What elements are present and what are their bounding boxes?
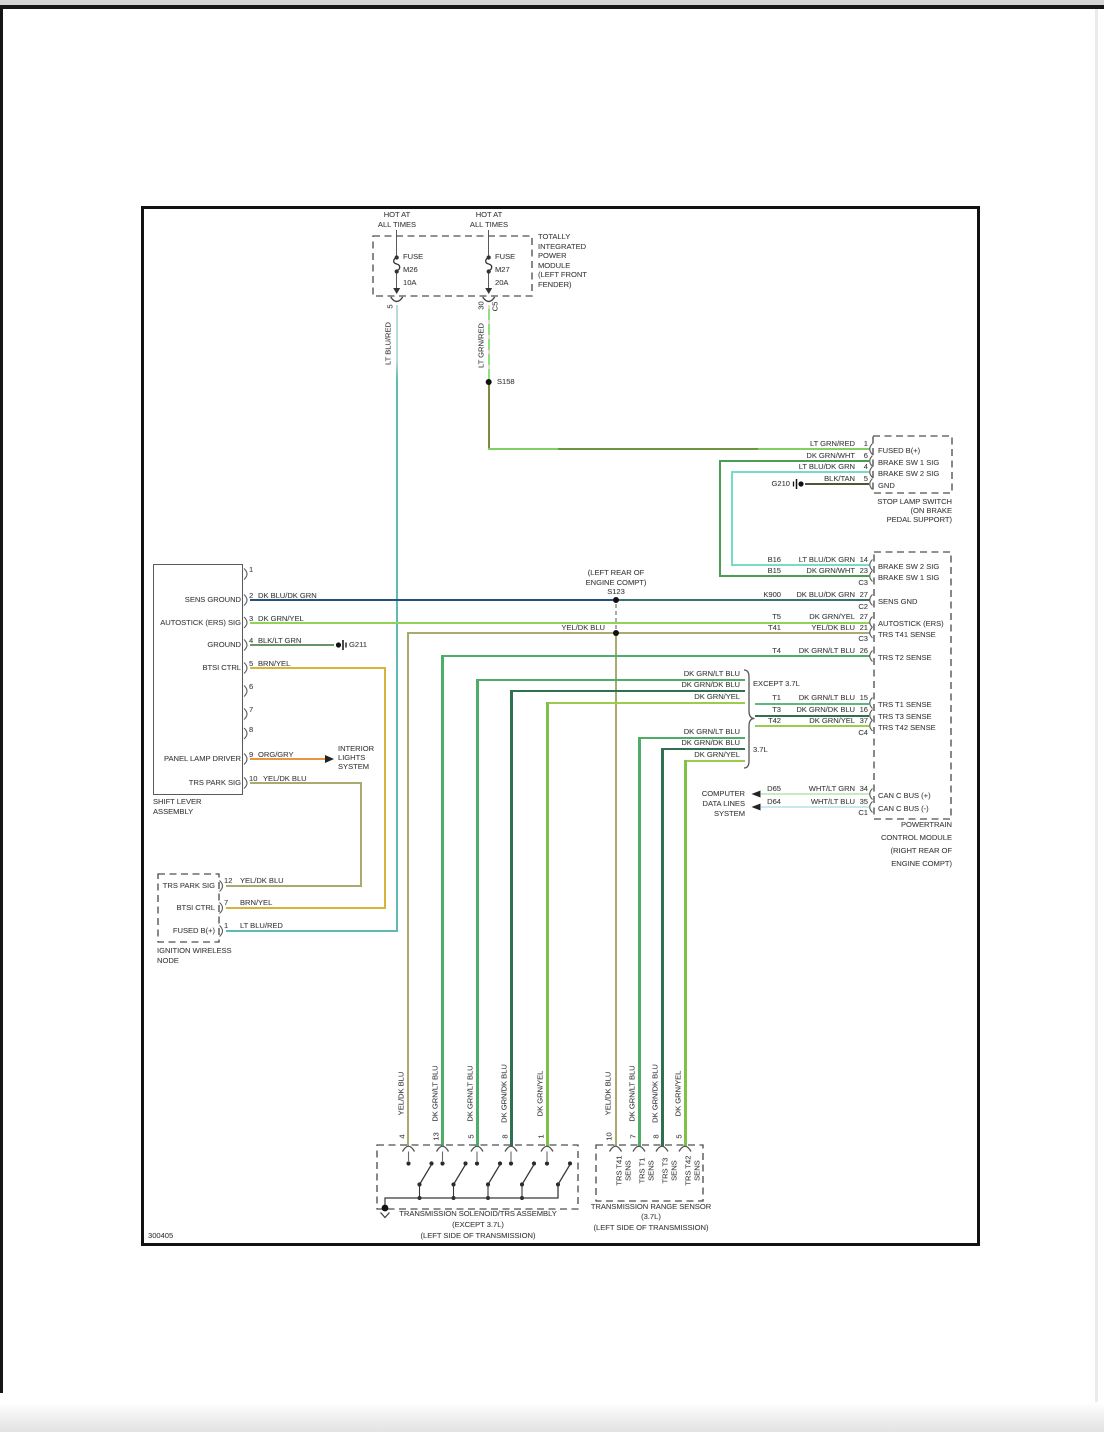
wire DK GRN/YEL vertical x547 [546, 702, 549, 1147]
pin 8 range sensor [651, 1127, 660, 1147]
group label DK GRN/LT BLU b [640, 727, 740, 736]
wire YEL/DK BLU vertical to solenoid [407, 632, 409, 1147]
wire WHT/LT BLU D64 [761, 806, 869, 808]
wire fuse M27 bottom lead [488, 272, 489, 288]
brace except/3.7L groups [744, 670, 755, 768]
pin 5 stop lamp switch [854, 474, 868, 483]
connector arc solenoid wire 4 [505, 1146, 517, 1151]
connector arc solenoid wire 2 [437, 1146, 449, 1151]
wire DK GRN/YEL group row [547, 702, 745, 704]
pin 14 B16 [842, 555, 868, 564]
PCM label AUTOSTICK (ERS) [878, 619, 944, 628]
solenoid ground bus [382, 1185, 558, 1211]
wire LT GRN/RED horizontal run [488, 448, 870, 450]
shift lever label SENS GROUND [141, 595, 241, 604]
PCM label CAN C BUS (-) [878, 804, 929, 813]
connector arc PCM pin 26 T4 [870, 651, 873, 662]
label EXCEPT 3.7L [753, 679, 800, 688]
PCM label CAN C BUS (+) [878, 791, 931, 800]
range sensor label TRS T1 SENS [638, 1150, 655, 1192]
ground G210 label [740, 479, 790, 488]
wire fuse M27 top lead [488, 230, 489, 257]
connector arc node pin 1 [220, 926, 223, 937]
wire DK GRN/LT BLU 3.7L row [639, 737, 745, 739]
connector arc PCM pin 27 K900 [870, 595, 873, 606]
connector arc range sensor wire 2 [633, 1146, 645, 1151]
wire BRN/YEL pin 5 row [250, 667, 386, 669]
shift lever pin 7 [249, 705, 253, 714]
wire fuse M26 bottom lead [396, 272, 397, 288]
circuit id T41 [731, 623, 781, 632]
wire label YEL/DK BLU node pin 12 [240, 876, 284, 885]
pin 16 T3 [842, 705, 868, 714]
wire LT BLU/RED horizontal to node pin 1 [226, 930, 397, 932]
shift lever pin 8 [249, 725, 253, 734]
splice S158 [486, 379, 492, 385]
wire DK GRN/DK BLU vertical x662 [661, 748, 664, 1147]
circuit id T5 [731, 612, 781, 621]
solenoid switch 2 [440, 1152, 467, 1201]
connector arc stop lamp pin 1 [870, 444, 873, 455]
wire label LT BLU/DK GRN B16 [755, 555, 855, 564]
group label DK GRN/YEL b [640, 750, 740, 759]
connector arc shift pin 6 [244, 686, 247, 697]
PCM label TRS T42 SENSE [878, 723, 936, 732]
connector arc PCM pin 21 T41 [870, 627, 873, 638]
pin 15 T1 [842, 693, 868, 702]
range sensor label TRS T41 SENS [615, 1150, 632, 1192]
pin 30 of TIPM [477, 296, 486, 316]
connector arc shift pin 1 [244, 569, 247, 580]
wire YEL/DK BLU vertical to node [360, 782, 362, 887]
node label FUSED B(+) [115, 926, 215, 935]
label YEL/DK BLU range wire 1 [604, 1044, 613, 1144]
shift lever label TRS PARK SIG [141, 778, 241, 787]
label LT BLU/RED [384, 294, 393, 394]
wire label DK GRN/LT BLU T4 [755, 646, 855, 655]
wire T4 DK GRN/LT BLU row [442, 655, 870, 657]
node pin 12 [224, 876, 232, 885]
pin 7 range sensor [628, 1127, 637, 1147]
pin 27 K900 [842, 590, 868, 599]
group label DK GRN/DK BLU a [640, 680, 740, 689]
fuse M27 symbol [486, 255, 492, 273]
shift lever pin 1 [249, 565, 253, 574]
connector C3 upper PCM [842, 578, 868, 587]
PCM label TRS T2 SENSE [878, 653, 932, 662]
wire label ORG/GRY pin 9 [258, 750, 294, 759]
wire label WHT/LT BLU D64 [755, 797, 855, 806]
connector arc shift pin 9 [244, 754, 247, 765]
label DK GRN/DK BLU solenoid wire 4 [499, 1044, 508, 1144]
label DK GRN/DK BLU range wire 3 [650, 1044, 659, 1144]
wire DK GRN/LT BLU vertical x639 [638, 737, 641, 1148]
pin 34 D65 [842, 784, 868, 793]
connector arc PCM pin 27 T5 [870, 617, 873, 628]
interior lights caption [338, 744, 374, 771]
pin 35 D64 [842, 797, 868, 806]
wire DK GRN/LT BLU vertical x442 [441, 655, 444, 1147]
connector arc PCM pin 16 T3 [870, 710, 873, 721]
connector arc shift pin 4 [244, 640, 247, 651]
connector C3 lower PCM [842, 634, 868, 643]
pin 5 of TIPM [386, 297, 395, 317]
pin 26 T4 [842, 646, 868, 655]
group label DK GRN/YEL a [640, 692, 740, 701]
pin 5 range sensor [674, 1127, 683, 1147]
shift lever pin 10 [249, 774, 257, 783]
PCM label TRS T41 SENSE [878, 630, 936, 639]
label DK GRN/LT BLU range wire 2 [627, 1044, 636, 1144]
shift lever pin 2 [249, 591, 253, 600]
TIPM dashed box [373, 236, 532, 296]
shift lever pin 5 [249, 659, 253, 668]
circuit id T42 [731, 716, 781, 725]
pin 6 stop lamp switch [854, 451, 868, 460]
label DK GRN/LT BLU solenoid wire 3 [465, 1044, 474, 1144]
stop switch BRAKE SW 2 SIG [878, 469, 939, 478]
fuse M27 label [495, 250, 515, 289]
connector arc solenoid wire 3 [471, 1146, 483, 1151]
wire label DK GRN/WHT row [755, 451, 855, 460]
wire YEL/DK BLU vertical to range sensor [615, 634, 617, 1147]
wire label DK BLU/DK GRN K900 [755, 590, 855, 599]
connector arc range sensor wire 3 [656, 1146, 668, 1151]
wire label DK GRN/YEL T5 [755, 612, 855, 621]
wire label DK GRN/DK BLU T3 [755, 705, 855, 714]
pin 5 solenoid [466, 1127, 475, 1147]
splice S123 [613, 597, 619, 603]
connector arc node pin 7 [220, 903, 223, 914]
stop switch BRAKE SW 1 SIG [878, 458, 939, 467]
connector arc PCM pin 15 T1 [870, 698, 873, 709]
connector arc range sensor wire 1 [610, 1146, 622, 1151]
stop switch GND [878, 481, 895, 490]
wire label LT BLU/RED node pin 1 [240, 921, 283, 930]
transmission range sensor dashed box [596, 1145, 703, 1201]
wire LT GRN/RED olive segment [488, 382, 491, 449]
connector arc PCM pin 34 D65 [870, 789, 873, 800]
connector arc stop lamp pin 5 [870, 479, 873, 490]
pin 8 solenoid [500, 1127, 509, 1147]
pin 4 stop lamp switch [854, 462, 868, 471]
TIPM module label [538, 232, 587, 290]
splice S123 caption [566, 568, 666, 597]
fuse M26 symbol [394, 255, 400, 273]
wire LT BLU/DK GRN vertical [731, 471, 733, 566]
wire DK GRN/LT BLU group row [477, 679, 745, 681]
ground G211 [336, 640, 346, 650]
wire DK GRN/WHT stop row [719, 460, 869, 462]
wire BLK/TAN to G210 [805, 483, 869, 485]
wire LT GRN/RED dashed upper [488, 305, 491, 382]
browser top grey strip [0, 0, 1104, 5]
arrow computer data lines D65 [752, 791, 761, 798]
connector arc solenoid wire 5 [541, 1146, 553, 1151]
PCM label TRS T1 SENSE [878, 700, 932, 709]
shift lever pin 6 [249, 682, 253, 691]
wire DK GRN/DK BLU group row [511, 690, 745, 692]
node label BTSI CTRL [115, 903, 215, 912]
wire label WHT/LT GRN D65 [755, 784, 855, 793]
PCM label SENS GND [878, 597, 917, 606]
wire label DK BLU/DK GRN pin 2 [258, 591, 317, 600]
label 3.7L [753, 745, 768, 754]
wire label YEL/DK BLU T41 [755, 623, 855, 632]
node label TRS PARK SIG [115, 881, 215, 890]
shift lever label GROUND [141, 640, 241, 649]
pin 27 T5 [842, 612, 868, 621]
wire WHT/LT GRN D65 [761, 793, 869, 795]
PCM label TRS T3 SENSE [878, 712, 932, 721]
splice junction YEL/DK BLU [613, 630, 619, 636]
shift lever assembly box [153, 564, 243, 795]
solenoid case ground mark [381, 1213, 390, 1218]
wire label BRN/YEL pin 5 [258, 659, 290, 668]
label hot at all times 1 [367, 210, 427, 230]
wire DK GRN/DK BLU 3.7L row [662, 748, 745, 750]
wire DK GRN/DK BLU vertical x511 [510, 690, 513, 1147]
wire ORG/GRY panel lamp [250, 758, 325, 760]
wire DK GRN/YEL vertical x685 [684, 760, 687, 1147]
node pin 7 [224, 898, 228, 907]
circuit id T4 [731, 646, 781, 655]
shift lever caption [153, 797, 201, 816]
shift lever pin 3 [249, 614, 253, 623]
circuit id D65 [731, 784, 781, 793]
connector arc shift pin 5 [244, 663, 247, 674]
PCM caption [802, 818, 952, 870]
ignition wireless node caption [157, 946, 232, 965]
circuit id K900 [731, 590, 781, 599]
browser top black bar [0, 5, 1104, 9]
solenoid switch 3 [475, 1152, 502, 1201]
connector C4 PCM [842, 728, 868, 737]
splice S158 label [497, 377, 515, 386]
circuit id T3 [731, 705, 781, 714]
wire label YEL/DK BLU pin 10 [263, 774, 307, 783]
shift lever label PANEL LAMP DRIVER [141, 754, 241, 763]
connector C5 of TIPM [491, 297, 500, 317]
wire label LT BLU/DK GRN row [755, 462, 855, 471]
wire label LT GRN/RED row [755, 439, 855, 448]
label YEL/DK BLU solenoid wire 1 [397, 1044, 406, 1144]
range sensor caption [586, 1202, 716, 1233]
bottom fade [0, 1402, 1104, 1432]
connector arc PCM pin 14 B16 [870, 560, 873, 571]
group label DK GRN/LT BLU a [640, 669, 740, 678]
node pin 1 [224, 921, 228, 930]
wire DK BLU/DK GRN sens ground [250, 599, 870, 601]
connector arc PCM pin 35 D64 [870, 802, 873, 813]
computer data lines caption [645, 789, 745, 819]
pin 13 solenoid [432, 1127, 441, 1147]
splice link dashed [615, 604, 617, 630]
label DK GRN/YEL range wire 4 [673, 1044, 682, 1144]
circuit id B16 [731, 555, 781, 564]
pin 1 solenoid [536, 1127, 545, 1147]
connector arc PCM pin 23 B15 [870, 571, 873, 582]
shift lever pin 4 [249, 636, 253, 645]
circuit id T1 [731, 693, 781, 702]
wire LT BLU/DK GRN stop row [731, 471, 869, 473]
wire DK GRN/YEL 3.7L row [685, 760, 745, 762]
circuit id B15 [731, 566, 781, 575]
wire DK GRN/WHT B15 row [719, 575, 869, 577]
pin 10 range sensor [605, 1127, 614, 1147]
pin 23 B15 [842, 566, 868, 575]
diagram id 300405 [148, 1231, 173, 1240]
connector arc PCM pin 37 T42 [870, 720, 873, 731]
connector arc solenoid wire 1 [403, 1146, 415, 1151]
connector arc range sensor wire 4 [679, 1146, 691, 1151]
wire LT BLU/RED vertical [396, 305, 398, 932]
PCM dashed box [874, 552, 951, 819]
wire BRN/YEL node row [226, 907, 384, 909]
shift lever pin 9 [249, 750, 253, 759]
wire DK GRN/YEL T5 row [250, 622, 870, 624]
wire BLK/LT GRN ground wire [250, 644, 334, 646]
wire label DK GRN/YEL pin 3 [258, 614, 304, 623]
TIPM output arrow 1 [391, 288, 403, 302]
pin 1 stop lamp switch [854, 439, 868, 448]
PCM label BRAKE SW 1 SIG [878, 573, 939, 582]
arrow to interior lights system [325, 755, 334, 763]
diagram border frame [141, 206, 980, 1246]
wire T42 DK GRN/YEL pigtail [755, 725, 869, 727]
solenoid assembly caption [377, 1208, 579, 1241]
label YEL/DK BLU at splice [515, 623, 605, 632]
label DK GRN/YEL solenoid wire 5 [535, 1044, 544, 1144]
ignition wireless node dashed box [158, 874, 219, 942]
wire T3 DK GRN/DK BLU pigtail [755, 715, 869, 717]
stop switch FUSED B(+) [878, 446, 920, 455]
connector arc node pin 12 [220, 881, 223, 892]
wire label DK GRN/WHT B15 [755, 566, 855, 575]
wire YEL/DK BLU pin 10 row [250, 782, 362, 784]
connector arc shift pin 8 [244, 728, 247, 739]
shift lever label BTSI CTRL [141, 663, 241, 672]
window left edge [0, 9, 3, 1393]
label hot at all times 2 [459, 210, 519, 230]
connector C1 PCM [842, 808, 868, 817]
wire label BLK/LT GRN pin 4 [258, 636, 301, 645]
PCM label BRAKE SW 2 SIG [878, 562, 939, 571]
group label DK GRN/DK BLU b [640, 738, 740, 747]
wire DK GRN/LT BLU vertical x477 [476, 679, 479, 1148]
connector arc shift pin 3 [244, 617, 247, 628]
wire LT BLU/DK GRN B16 row [731, 564, 869, 566]
wire DK GRN/WHT vertical [719, 460, 721, 577]
circuit id D64 [731, 797, 781, 806]
fuse M26 label [403, 250, 423, 289]
ground G210 [794, 479, 804, 489]
connector arc shift pin 10 [244, 778, 247, 789]
arrow computer data lines D64 [752, 804, 761, 811]
ground G211 label [349, 640, 367, 649]
wire T1 DK GRN/LT BLU pigtail [755, 703, 869, 705]
stop lamp switch caption [802, 497, 952, 525]
connector arc shift pin 2 [244, 595, 247, 606]
connector C2 PCM [842, 602, 868, 611]
window right divider [1095, 9, 1098, 1432]
wire label BRN/YEL node pin 7 [240, 898, 272, 907]
connector arc stop lamp pin 6 [870, 456, 873, 467]
wire label DK GRN/LT BLU T1 [755, 693, 855, 702]
connector arc shift pin 7 [244, 709, 247, 720]
transmission solenoid dashed box [377, 1145, 578, 1209]
solenoid switch 5 [545, 1152, 572, 1199]
shift lever label AUTOSTICK (ERS) SIG [141, 618, 241, 627]
wire YEL/DK BLU T41 row [407, 632, 870, 634]
wire fuse M26 top lead [396, 230, 397, 257]
label LT GRN/RED [477, 296, 486, 396]
range sensor label TRS T42 SENS [684, 1150, 701, 1192]
label DK GRN/LT BLU solenoid wire 2 [431, 1044, 440, 1144]
stop lamp switch dashed box [873, 436, 952, 493]
pin 37 T42 [842, 716, 868, 725]
range sensor label TRS T3 SENS [661, 1150, 678, 1192]
pin 21 T41 [842, 623, 868, 632]
wire label BLK/TAN row [755, 474, 855, 483]
TIPM output arrow 2 [483, 288, 495, 302]
solenoid switch 4 [509, 1152, 536, 1201]
solenoid switch 1 [406, 1152, 433, 1201]
connector arc stop lamp pin 4 [870, 467, 873, 478]
wire YEL/DK BLU node row [226, 885, 362, 887]
wire BRN/YEL vertical [384, 667, 386, 909]
pin 4 solenoid [398, 1127, 407, 1147]
wire label DK GRN/YEL T42 [755, 716, 855, 725]
